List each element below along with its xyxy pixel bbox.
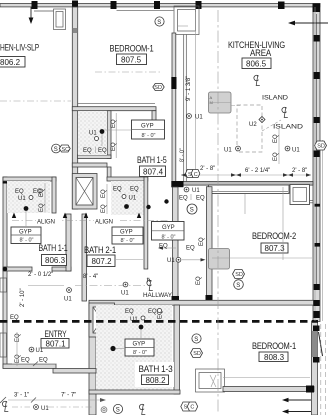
svg-text:807.4: 807.4 xyxy=(143,167,164,176)
svg-text:EQ: EQ xyxy=(10,315,19,321)
svg-text:807.1: 807.1 xyxy=(46,339,67,348)
wall chase east xyxy=(82,214,87,301)
wall stub top-left box xyxy=(54,9,66,30)
marker U1 kitchen right xyxy=(285,146,300,153)
svg-text:EQ: EQ xyxy=(186,246,195,252)
column top 6 xyxy=(278,2,285,10)
gyp tag bath1-1 xyxy=(11,227,41,244)
stipple bath1-3 xyxy=(96,305,172,390)
svg-text:U1: U1 xyxy=(121,291,129,297)
centerline island 1 xyxy=(254,75,289,102)
tag 807.5 xyxy=(117,54,147,65)
symbol S top xyxy=(155,17,164,26)
svg-text:U1: U1 xyxy=(64,297,72,303)
wall bath2-1 east xyxy=(144,177,148,269)
closet bedroom2 xyxy=(290,185,310,205)
svg-text:EQ: EQ xyxy=(15,189,24,195)
bedroom2 light lines xyxy=(212,257,312,259)
svg-text:U1: U1 xyxy=(167,258,175,264)
island 2 dashed outline xyxy=(237,105,262,152)
centerline island dashed h1 xyxy=(231,105,240,107)
soffit line bedroom1 north xyxy=(117,9,174,11)
svg-text:808.3: 808.3 xyxy=(264,353,285,362)
wall entry south xyxy=(3,364,56,369)
svg-text:9' - 1 3/8": 9' - 1 3/8" xyxy=(186,76,192,101)
wall hallway south long xyxy=(89,300,314,305)
corridor dim annotations xyxy=(158,237,206,264)
wall bath1-5 east xyxy=(107,111,111,159)
svg-text:HEN-LIV-SLP: HEN-LIV-SLP xyxy=(0,43,39,53)
svg-text:EQ: EQ xyxy=(273,152,279,161)
symbol S vestibule xyxy=(187,204,197,214)
svg-text:C: C xyxy=(190,405,194,411)
svg-text:S: S xyxy=(157,20,161,26)
hallway annotations xyxy=(10,272,202,321)
svg-text:808.2: 808.2 xyxy=(146,376,167,385)
marker U2 xyxy=(249,117,265,129)
dim EQ rot kitchen right xyxy=(273,128,279,164)
bath2-1 annotations xyxy=(101,184,169,214)
svg-text:EQ: EQ xyxy=(111,142,117,151)
svg-text:S: S xyxy=(194,337,198,343)
svg-text:ENTRY: ENTRY xyxy=(45,329,67,339)
partition line kitchen xyxy=(183,35,185,183)
bedroom1 light line xyxy=(223,377,310,379)
tag 808.3 xyxy=(259,352,288,362)
svg-text:ALIGN: ALIGN xyxy=(95,220,113,226)
svg-text:EQ: EQ xyxy=(21,358,30,364)
wall bedroom2 west xyxy=(207,187,213,303)
centerline island 2 xyxy=(273,107,304,131)
svg-text:U1: U1 xyxy=(18,196,26,202)
svg-text:GYP: GYP xyxy=(19,229,32,235)
bath1-5 annotations xyxy=(83,113,132,158)
svg-text:8' - 0": 8' - 0" xyxy=(121,238,135,244)
tag 807.3 xyxy=(261,243,288,253)
svg-text:SD: SD xyxy=(193,351,201,357)
svg-text:BATH 1-5: BATH 1-5 xyxy=(137,155,167,165)
shaft elevator 2 xyxy=(89,303,115,337)
svg-text:EQ: EQ xyxy=(39,188,45,197)
svg-text:2' - 10": 2' - 10" xyxy=(20,288,26,307)
gyp tag bath1-3 xyxy=(125,339,154,356)
shower box bath1-3 xyxy=(196,369,225,392)
wall bath1-1 south 2 xyxy=(52,267,71,271)
dim 9ft vertical xyxy=(186,12,196,176)
svg-text:2' - 0 1/2": 2' - 0 1/2" xyxy=(28,272,53,278)
svg-text:EQ: EQ xyxy=(148,309,157,315)
svg-text:2' - 8": 2' - 8" xyxy=(200,166,215,172)
svg-text:3' - 1": 3' - 1" xyxy=(14,393,29,399)
wall bath1-3 south xyxy=(89,390,180,394)
svg-text:807.5: 807.5 xyxy=(121,55,142,64)
wall bedroom2 north xyxy=(178,182,314,186)
svg-text:GYP: GYP xyxy=(162,225,175,231)
wall bath1-3 east xyxy=(174,305,180,394)
svg-text:EQ: EQ xyxy=(113,187,122,193)
svg-text:ALIGN: ALIGN xyxy=(37,220,55,226)
svg-text:EQ: EQ xyxy=(196,196,205,202)
svg-text:S: S xyxy=(184,405,188,411)
left door jamb entry xyxy=(0,333,7,357)
svg-text:EQ: EQ xyxy=(111,119,117,128)
svg-text:EQ: EQ xyxy=(83,148,92,154)
island column 2 xyxy=(209,249,230,270)
column top 1 xyxy=(32,1,38,9)
column top 4 xyxy=(154,1,160,9)
svg-text:EQ: EQ xyxy=(125,309,134,315)
right wall inner line xyxy=(314,7,316,321)
svg-text:EQ: EQ xyxy=(15,333,21,342)
svg-text:GYP: GYP xyxy=(133,342,146,348)
symbol S bath1-3 xyxy=(192,334,201,343)
column top 5 xyxy=(196,1,202,9)
svg-text:EQ: EQ xyxy=(98,148,107,154)
svg-text:U1: U1 xyxy=(89,131,97,137)
svg-text:EQ: EQ xyxy=(273,134,279,143)
svg-text:U2: U2 xyxy=(249,122,257,128)
svg-text:ℏ: ℏ xyxy=(147,277,151,284)
svg-text:8' - 0": 8' - 0" xyxy=(20,237,34,243)
wall kitchen-west vertical xyxy=(172,33,176,187)
align line left xyxy=(12,213,170,226)
svg-text:ISLAND: ISLAND xyxy=(273,125,304,131)
wall right exterior lower xyxy=(312,321,318,415)
symbol S SC left xyxy=(52,144,71,153)
dashdot ceiling line left xyxy=(0,100,71,102)
symbol S-C bottom xyxy=(181,402,198,411)
island column 1 xyxy=(209,92,232,113)
wall bath2-1 northjog xyxy=(107,167,111,178)
svg-text:U1: U1 xyxy=(129,196,137,202)
svg-text:S: S xyxy=(190,208,194,214)
wall chase west xyxy=(66,214,71,271)
arrow kitchen right xyxy=(288,21,328,26)
svg-text:EQ: EQ xyxy=(196,276,202,285)
wall vestibule west xyxy=(173,187,179,302)
leader island2 xyxy=(262,120,281,131)
symbol SD bath1-3 xyxy=(191,349,203,358)
svg-text:SD: SD xyxy=(235,272,243,278)
column top 2 xyxy=(72,1,78,10)
bottom dim row xyxy=(0,393,145,415)
column top 3 xyxy=(111,1,117,9)
svg-text:BATH 2-1: BATH 2-1 xyxy=(84,245,116,255)
svg-text:EQ: EQ xyxy=(179,196,188,202)
svg-text:S: S xyxy=(116,408,120,414)
svg-text:8' - 0": 8' - 0" xyxy=(162,234,176,240)
tag 807.4 xyxy=(140,166,166,177)
wall top exterior xyxy=(0,4,320,7)
svg-text:S: S xyxy=(236,283,240,289)
symbol SD bedroom1 xyxy=(153,84,164,92)
stipple bath2-1 xyxy=(111,181,144,215)
wall bath1-1 south xyxy=(3,267,32,271)
svg-text:ISLAND: ISLAND xyxy=(262,96,289,102)
wall entry/bath13 west vertical xyxy=(89,305,96,415)
column corner top-right xyxy=(313,4,321,13)
svg-text:SC: SC xyxy=(62,147,70,153)
svg-text:BEDROOM-1: BEDROOM-1 xyxy=(252,341,296,351)
svg-text:U1: U1 xyxy=(36,348,44,354)
entry annotations xyxy=(12,332,56,366)
bath1-3 upper annotations xyxy=(125,309,164,340)
bath1-3 dot leader xyxy=(110,346,125,351)
gyp tag bath1-5 xyxy=(132,120,165,139)
svg-text:806.3: 806.3 xyxy=(45,256,66,265)
centerline mark hallway xyxy=(147,280,153,291)
closet bedroom-1 top xyxy=(174,6,199,35)
svg-text:807.3: 807.3 xyxy=(265,244,286,253)
door bottom right xyxy=(312,326,323,363)
tag 806.2 xyxy=(0,57,25,68)
column bedroom2-west base xyxy=(206,295,213,302)
stipple bath1-5 xyxy=(78,111,107,155)
wall bath1-5 south xyxy=(78,155,112,159)
dashed neighbor wall bottom right xyxy=(320,324,322,415)
wall bath2-1 north xyxy=(107,177,148,181)
left edge stub xyxy=(0,278,7,292)
svg-text:BATH 1-3: BATH 1-3 xyxy=(139,364,173,374)
svg-text:EQ: EQ xyxy=(101,189,107,198)
wall bath1-1 east xyxy=(52,177,56,213)
tag 808.2 xyxy=(142,375,169,385)
svg-text:SD: SD xyxy=(154,85,162,91)
svg-text:8' - 4": 8' - 4" xyxy=(83,274,98,280)
svg-text:EQ: EQ xyxy=(101,204,107,213)
wall left exterior xyxy=(3,177,7,368)
svg-text:U1: U1 xyxy=(192,188,200,194)
svg-text:U1: U1 xyxy=(224,148,232,154)
centerline kitchen vertical xyxy=(217,10,219,413)
shaft elevator 1 xyxy=(72,174,97,210)
svg-text:807.2: 807.2 xyxy=(92,257,113,266)
wall bedroom1 south xyxy=(223,387,314,392)
svg-text:BEDROOM-2: BEDROOM-2 xyxy=(252,231,296,241)
svg-text:AREA: AREA xyxy=(250,48,271,58)
marker U1 island1 xyxy=(224,146,240,153)
wall bath1-5 north xyxy=(72,107,156,111)
wall stub top-left 2 / bath1-5 west wall xyxy=(72,7,77,209)
svg-text:EQ: EQ xyxy=(130,187,139,193)
svg-text:U1: U1 xyxy=(130,317,138,323)
marker U1 kitchen a xyxy=(187,114,204,121)
svg-text:6' - 2 1/4": 6' - 2 1/4" xyxy=(245,168,270,174)
svg-text:2' - 8": 2' - 8" xyxy=(292,168,307,174)
arrows bottom right xyxy=(282,398,311,414)
closet bar bedroom2 xyxy=(209,185,290,194)
column kitchen-west xyxy=(171,77,176,89)
wall bath1-1 north xyxy=(3,177,56,181)
stipple bath1-1 xyxy=(7,181,50,213)
right wall columns xyxy=(314,35,320,42)
svg-text:7' - 7": 7' - 7" xyxy=(61,393,76,399)
ceiling edge lines xyxy=(7,212,50,214)
wall entry south step xyxy=(53,369,96,374)
wall jog bath1-5 ne xyxy=(152,111,156,122)
tag 806.5 xyxy=(242,58,271,69)
svg-text:SD: SD xyxy=(317,144,325,150)
tag 807.1 xyxy=(41,339,69,349)
svg-text:EQ: EQ xyxy=(39,358,48,364)
svg-text:806.2: 806.2 xyxy=(0,58,21,67)
bedroom2 symbols xyxy=(233,270,245,279)
svg-text:8' - 0": 8' - 0" xyxy=(142,133,156,139)
svg-text:GYP: GYP xyxy=(120,230,133,236)
svg-text:BEDROOM-1: BEDROOM-1 xyxy=(110,44,154,54)
label EQ EQ vestibule xyxy=(179,194,205,202)
marker U1 vestibule xyxy=(184,187,200,194)
svg-text:S: S xyxy=(54,147,58,153)
black dot wall left xyxy=(3,267,8,272)
symbol SD right edge xyxy=(315,141,327,150)
svg-text:U1: U1 xyxy=(292,148,300,154)
svg-text:C: C xyxy=(194,172,198,178)
svg-text:8' - 0": 8' - 0" xyxy=(180,148,186,162)
wall shaft-row north xyxy=(72,163,107,167)
leader 807.2 xyxy=(116,259,143,261)
svg-text:EQ: EQ xyxy=(199,237,205,246)
svg-text:U1: U1 xyxy=(195,115,203,121)
svg-text:806.5: 806.5 xyxy=(246,59,267,68)
gyp tag corridor xyxy=(152,222,185,241)
dashdot bedroom1 xyxy=(95,71,160,73)
tag 807.2 xyxy=(87,255,115,267)
svg-text:GYP: GYP xyxy=(141,124,154,130)
bath1-1 annotations xyxy=(15,183,45,227)
symbol S-C vestibule xyxy=(186,170,200,179)
arrow down top-left xyxy=(30,7,32,19)
svg-text:8' - 0": 8' - 0" xyxy=(133,350,147,356)
svg-text:HALLWAY: HALLWAY xyxy=(143,293,172,299)
gyp tag bath2-1 xyxy=(112,227,143,244)
wall right exterior upper xyxy=(313,4,320,322)
svg-text:EQ: EQ xyxy=(39,203,45,212)
demising dashed line xyxy=(0,320,318,323)
tag 806.3 xyxy=(42,255,67,266)
dim row kitchen south xyxy=(181,166,311,177)
svg-text:BATH 1-1: BATH 1-1 xyxy=(39,243,68,253)
